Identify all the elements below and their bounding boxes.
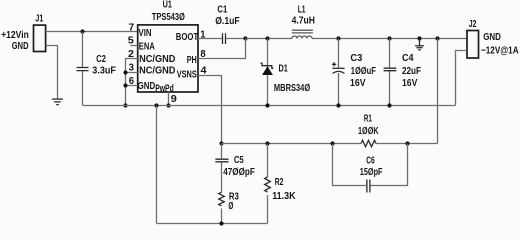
wire J1 GND pin bbox=[46, 46, 58, 99]
pin 9 number bbox=[171, 94, 178, 105]
node C3 top bbox=[336, 36, 340, 40]
capacitor C5 bbox=[215, 155, 254, 178]
svg-text:NC/GND: NC/GND bbox=[139, 65, 175, 76]
connector J1 bbox=[1, 13, 45, 52]
svg-text:1ØØuF: 1ØØuF bbox=[351, 66, 376, 77]
wire VSNS pin 4 down bbox=[198, 76, 222, 144]
svg-text:C4: C4 bbox=[402, 53, 414, 64]
wire C4 column bbox=[389, 39, 391, 106]
svg-text:4: 4 bbox=[201, 65, 207, 76]
wire +12V rail J1 to VIN bbox=[46, 31, 138, 33]
svg-text:PH: PH bbox=[187, 55, 197, 66]
diode D1 schottky bbox=[260, 63, 310, 94]
wire PH pin 8 stub up to node bbox=[198, 39, 246, 59]
svg-text:GND: GND bbox=[483, 32, 501, 43]
svg-text:C5: C5 bbox=[234, 155, 244, 166]
svg-text:PwPd: PwPd bbox=[155, 83, 174, 94]
capacitor C1 bbox=[215, 4, 240, 44]
svg-text:−12V@1A: −12V@1A bbox=[481, 46, 519, 57]
wire PH node to L1 bbox=[246, 38, 293, 40]
wire C1 to PH node bbox=[226, 38, 245, 40]
pin 5 number bbox=[128, 36, 134, 47]
node C4 top bbox=[387, 36, 391, 40]
node C3 bottom bbox=[336, 103, 340, 107]
svg-text:J2: J2 bbox=[469, 19, 477, 30]
node C2 tap bbox=[80, 29, 84, 33]
node R2 top bbox=[265, 141, 269, 145]
svg-text:C1: C1 bbox=[217, 4, 227, 15]
svg-text:15ØpF: 15ØpF bbox=[360, 167, 383, 178]
node pins rail junction bbox=[123, 103, 127, 107]
node C6 left bbox=[330, 141, 334, 145]
op-amp U1 TPS5430 body bbox=[138, 0, 199, 94]
wire R2 column bbox=[267, 144, 269, 224]
svg-text:Ø.1uF: Ø.1uF bbox=[215, 16, 240, 27]
svg-text:4.7uH: 4.7uH bbox=[292, 16, 315, 27]
svg-text:J1: J1 bbox=[35, 13, 44, 24]
svg-text:ENA: ENA bbox=[139, 41, 155, 52]
wire J2 -12V pin to rail bbox=[456, 51, 468, 106]
node feedback top tap bbox=[435, 36, 439, 40]
node D1 bottom bbox=[265, 103, 269, 107]
pin 7 number bbox=[129, 23, 135, 34]
wire C3 column bbox=[338, 39, 340, 106]
svg-text:MBRS34Ø: MBRS34Ø bbox=[274, 83, 310, 94]
svg-text:C2: C2 bbox=[96, 54, 106, 65]
node C1 PH junction bbox=[243, 36, 247, 40]
capacitor C3 polarized bbox=[332, 53, 376, 89]
ground below J1 bbox=[52, 99, 63, 105]
wire D1 column bbox=[267, 39, 269, 106]
svg-text:VSNS: VSNS bbox=[177, 69, 197, 80]
node C4 bottom bbox=[387, 103, 391, 107]
wire pins 2 3 6 tie to rail bbox=[126, 59, 138, 106]
node D1 top bbox=[265, 36, 269, 40]
svg-text:7: 7 bbox=[129, 23, 135, 34]
svg-text:22uF: 22uF bbox=[402, 66, 421, 77]
svg-text:3: 3 bbox=[129, 62, 135, 73]
wire feedback vertical to R1 row bbox=[437, 39, 439, 144]
wire feedback row bbox=[222, 143, 438, 145]
wire C6 branch bbox=[333, 144, 408, 186]
wire ENA stub pin 5 bbox=[130, 45, 137, 47]
resistor R2 bbox=[265, 177, 297, 202]
wire C2 column bbox=[82, 32, 84, 106]
pin 2 number bbox=[128, 49, 134, 60]
svg-text:L1: L1 bbox=[298, 5, 306, 16]
pin 3 number bbox=[129, 62, 135, 73]
capacitor C4 bbox=[384, 53, 421, 89]
pin 8 number bbox=[200, 49, 206, 60]
wire -12V rail bbox=[83, 105, 456, 107]
svg-text:16V: 16V bbox=[350, 78, 366, 89]
pin 1 number bbox=[200, 29, 205, 40]
pin 6 number bbox=[129, 76, 135, 87]
ground output rail bbox=[415, 39, 424, 50]
resistor R3 bbox=[219, 192, 240, 212]
node pin3 junction bbox=[123, 70, 127, 74]
svg-text:BOOT: BOOT bbox=[176, 32, 198, 43]
wire pin 9 PwPd drop bbox=[168, 92, 170, 106]
svg-text:Ø: Ø bbox=[228, 201, 233, 212]
node pin6 junction bbox=[123, 83, 127, 87]
svg-text:9: 9 bbox=[171, 94, 178, 105]
node loop vertical junction bbox=[154, 103, 158, 107]
node pin 9 junction bbox=[166, 103, 170, 107]
svg-text:R2: R2 bbox=[275, 177, 284, 188]
svg-text:U1: U1 bbox=[163, 0, 173, 10]
resistor R1 bbox=[358, 114, 379, 147]
svg-text:11.3K: 11.3K bbox=[272, 191, 296, 202]
node VSNS feedback junction bbox=[219, 141, 223, 145]
node C6 right bbox=[405, 141, 409, 145]
svg-text:GND: GND bbox=[12, 41, 29, 52]
wire left loop vertical bbox=[156, 106, 158, 224]
capacitor C2 bbox=[77, 54, 116, 77]
svg-text:3.3uF: 3.3uF bbox=[92, 66, 116, 77]
wire BOOT to C1 bbox=[198, 38, 222, 40]
wire C5 column bbox=[221, 144, 223, 224]
svg-text:16V: 16V bbox=[402, 78, 418, 89]
inductor L1 bbox=[292, 5, 315, 39]
wire bottom rail bbox=[157, 223, 268, 225]
svg-text:VIN: VIN bbox=[139, 28, 152, 39]
capacitor C6 bbox=[360, 155, 383, 192]
svg-text:+12Vin: +12Vin bbox=[1, 30, 29, 41]
node output ground tap bbox=[417, 36, 421, 40]
svg-text:1ØØK: 1ØØK bbox=[358, 126, 379, 137]
pin 4 number bbox=[201, 65, 207, 76]
svg-text:C6: C6 bbox=[366, 155, 375, 166]
svg-text:R1: R1 bbox=[364, 114, 372, 125]
connector J2 bbox=[467, 19, 519, 58]
svg-text:D1: D1 bbox=[279, 63, 289, 74]
svg-text:GND: GND bbox=[138, 81, 156, 92]
svg-text:NC/GND: NC/GND bbox=[139, 54, 175, 65]
node R3 bottom bbox=[219, 221, 223, 225]
svg-text:TPS543Ø: TPS543Ø bbox=[152, 12, 185, 23]
svg-text:C3: C3 bbox=[350, 53, 362, 64]
svg-text:47ØØpF: 47ØØpF bbox=[223, 167, 255, 178]
wire L1 to J2 GND rail bbox=[312, 38, 467, 40]
